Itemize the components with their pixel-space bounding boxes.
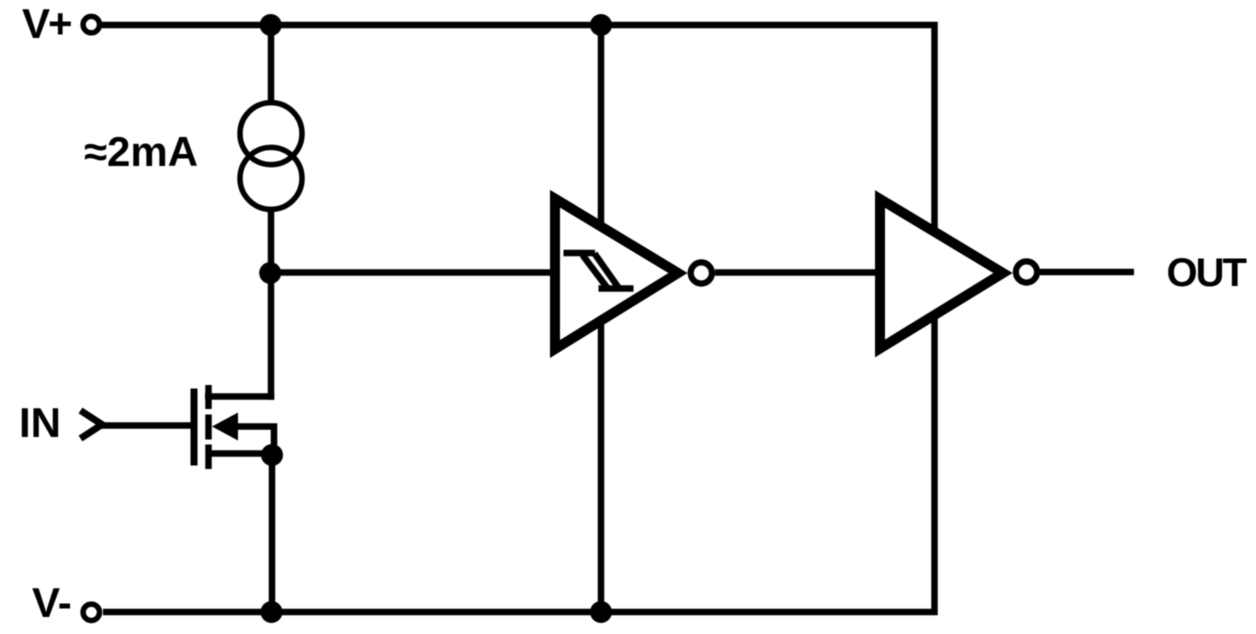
- svg-text:V+: V+: [22, 0, 71, 47]
- svg-text:IN: IN: [19, 399, 61, 446]
- svg-text:V-: V-: [32, 579, 72, 626]
- svg-text:OUT: OUT: [1167, 251, 1247, 295]
- svg-text:≈2mA: ≈2mA: [84, 128, 198, 175]
